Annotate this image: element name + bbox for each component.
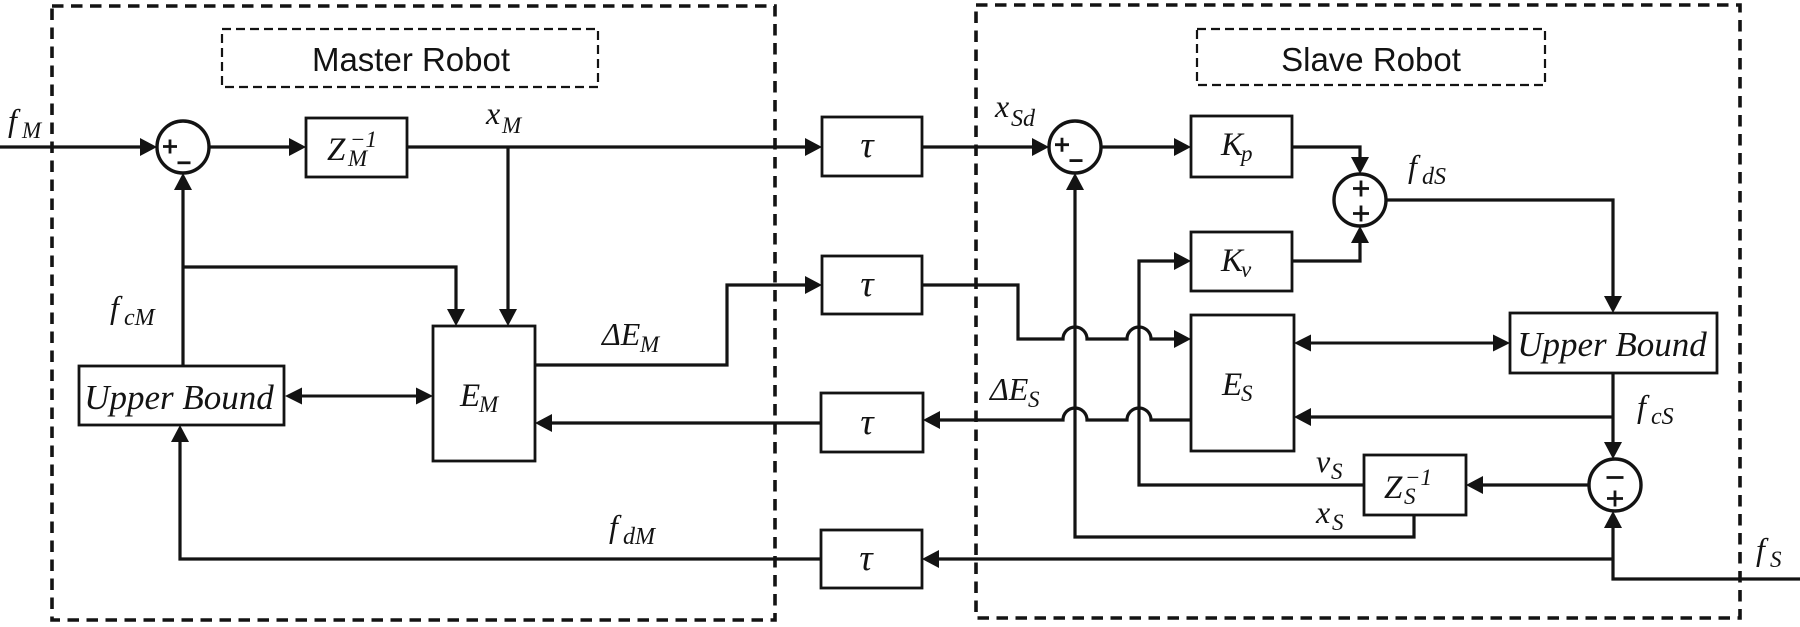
block E_S [1191,315,1294,451]
svg-text:cM: cM [124,305,157,331]
svg-text:M: M [501,113,523,138]
wire f_cS branch to E_S [1294,408,1613,426]
wire x_M branch down to E_M [499,147,517,326]
wire tau1 to C2 (x_Sd) [922,138,1049,156]
wire C2 to K_p [1101,138,1191,156]
master robot dashed boundary [52,6,775,620]
wire tau2 output to E_S with hops [922,285,1191,348]
svg-text:v: v [1316,443,1331,479]
block Z_S^-1 [1364,455,1466,515]
delay block tau3 [821,393,923,452]
svg-text:dS: dS [1422,164,1446,190]
wire C3 output f_dS to Upper Bound slave [1386,200,1622,313]
svg-text:M: M [639,332,661,357]
label f_dM [609,508,657,550]
delay block tau2 [822,256,922,314]
wire K_v to C3 [1292,226,1369,261]
label dE_S [988,371,1040,412]
svg-text:τ: τ [860,264,875,305]
svg-text:cS: cS [1651,404,1674,430]
label f_dS [1408,148,1446,190]
wire f_S input [1604,511,1800,579]
block E_M [433,326,535,461]
wire x_S from Z_S bottom to C2 [1066,173,1414,537]
Master Robot label box [222,29,598,87]
block Upper Bound (slave) [1510,313,1717,373]
svg-text:v: v [1241,257,1252,282]
label x_M [485,95,523,138]
svg-text:S: S [1332,510,1344,535]
wire dE_S from E_S to tau3 with hops [923,408,1191,429]
wire C4 output to Z_S [1466,476,1589,494]
wire K_p to C3 [1292,147,1369,174]
label x_S [1315,494,1344,535]
wire f_cM vertical (Upper Bound to C1 minus) [174,173,192,366]
svg-text:S: S [1241,381,1253,406]
wire double arrow Upper Bound - E_M [285,388,433,405]
svg-text:M: M [21,118,43,143]
block K_p [1191,116,1292,177]
svg-text:x: x [994,88,1009,124]
label f_cS [1637,388,1674,430]
wire tau4 output up to Upper Bound [171,425,821,559]
svg-text:E: E [1221,367,1242,403]
label v_S [1316,443,1343,484]
label f_cM [110,289,157,331]
wire C1 to Z_M [209,138,306,156]
slave robot dashed boundary [976,5,1740,618]
wire v_S from Z_S to K_v [1139,252,1364,485]
svg-text:dM: dM [623,524,657,550]
wire Z_M to tau1 (x_M) [407,138,822,156]
svg-text:Sd: Sd [1011,106,1036,132]
wire f_cS from Upper Bound slave down to C4 [1604,373,1622,459]
svg-text:x: x [1315,494,1330,530]
svg-text:τ: τ [859,538,874,579]
svg-text:τ: τ [860,402,875,443]
block K_v [1191,232,1292,291]
svg-text:ΔE: ΔE [988,371,1029,407]
wire f_M input [0,138,157,156]
svg-text:ΔE: ΔE [600,316,641,352]
svg-text:−1: −1 [350,127,377,152]
block Upper Bound (master) [79,366,284,425]
wire tau3 output to E_M [535,414,821,432]
delay block tau1 [822,117,922,176]
summing junction C2 (slave, +/-) [1049,121,1101,173]
label dE_M [600,316,661,357]
summing junction C3 (+/+) [1334,174,1386,226]
summing junction C1 (master, +/-) [157,121,209,173]
svg-text:Slave Robot: Slave Robot [1281,41,1461,78]
svg-text:S: S [1028,387,1040,412]
svg-text:−1: −1 [1405,465,1432,490]
label x_Sd [994,88,1036,132]
svg-text:Upper Bound: Upper Bound [84,378,274,417]
svg-text:S: S [1331,459,1343,484]
svg-text:S: S [1770,547,1782,572]
wire dE_M from E_M to tau2 [535,276,822,365]
wire f_dM from junction to tau4 [922,550,1613,568]
svg-text:Z: Z [1384,470,1403,506]
summing junction C4 (-/+) [1589,459,1641,511]
svg-text:Z: Z [327,132,346,168]
svg-text:E: E [459,378,480,414]
svg-text:Upper Bound: Upper Bound [1517,325,1707,364]
svg-text:τ: τ [860,125,875,166]
svg-text:Master Robot: Master Robot [312,41,510,78]
label f_S [1756,531,1782,572]
label f_M [8,102,43,143]
wire double arrow E_S - Upper Bound slave [1294,335,1510,352]
wire f_cM branch to E_M top [183,267,465,326]
Slave Robot label box [1197,29,1545,85]
svg-text:x: x [485,95,500,131]
block Z_M^-1 [306,118,407,177]
svg-text:M: M [478,392,500,417]
svg-text:p: p [1239,141,1253,166]
delay block tau4 [821,530,922,588]
